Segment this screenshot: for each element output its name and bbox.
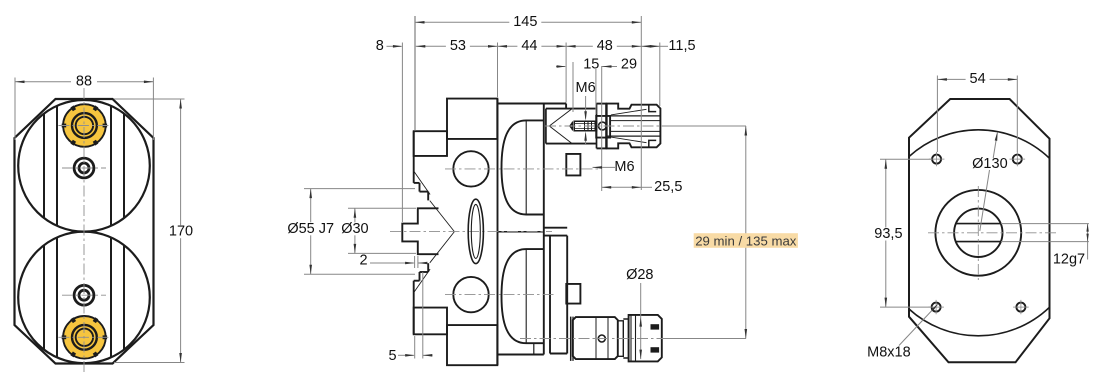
dimension 29	[602, 66, 617, 68]
dimension 53	[416, 45, 498, 47]
middle view: housing bottom edge	[498, 354, 544, 356]
middle view: lens-shaped coupling slot	[468, 199, 483, 263]
bottom spindle: step rings	[618, 321, 624, 357]
svg-text:29: 29	[621, 57, 637, 73]
right view: mounting holes	[932, 155, 941, 164]
bottom spindle: nut wrench slots (dark)	[651, 324, 660, 329]
svg-text:88: 88	[76, 74, 92, 90]
highlighted label 29 min / 135 max	[694, 233, 798, 248]
dimension 29 min / 135 max	[745, 126, 747, 339]
middle view: lower coupling block	[414, 308, 447, 335]
dimension 54	[936, 76, 938, 153]
svg-text:12g7: 12g7	[1053, 251, 1085, 267]
right view: spindle boss circle	[935, 190, 1021, 276]
svg-text:Ø130: Ø130	[972, 156, 1007, 172]
svg-text:170: 170	[169, 224, 193, 240]
bottom spindle: collet nut	[629, 315, 662, 362]
middle view: chamfer line lower	[414, 269, 430, 292]
left view: milled flat edges (vertical lines)	[43, 114, 45, 219]
top spindle: collet bore lines	[608, 115, 660, 117]
svg-text:M6: M6	[576, 80, 596, 96]
middle view: tapped tab upper (M6)	[566, 154, 580, 176]
right view: centerlines	[977, 186, 979, 280]
middle view: top mounting block	[447, 99, 497, 139]
svg-text:Ø55 J7: Ø55 J7	[287, 221, 334, 237]
left view: ER collet nut (top spindle, orange)	[62, 104, 107, 147]
svg-text:48: 48	[597, 38, 613, 54]
top spindle: ER collet nut body	[607, 104, 661, 149]
svg-text:11,5: 11,5	[668, 38, 695, 54]
dimension 145	[414, 16, 416, 131]
svg-text:29 min / 135 max: 29 min / 135 max	[695, 233, 797, 248]
middle view: clamp bore circle bottom	[453, 277, 488, 312]
svg-text:2: 2	[359, 252, 367, 268]
bottom spindle: main cylinder	[573, 317, 618, 359]
top spindle: centerline	[545, 125, 663, 127]
svg-text:53: 53	[450, 38, 466, 54]
middle view: clamp bore circle top	[453, 151, 488, 186]
svg-text:44: 44	[521, 38, 537, 54]
middle view: housing right face	[543, 104, 545, 355]
svg-text:15: 15	[583, 57, 599, 73]
top spindle: flange rings	[596, 104, 598, 149]
svg-text:93,5: 93,5	[874, 226, 902, 242]
middle view: upper coupling block	[414, 131, 447, 156]
dimension 11,5	[641, 45, 660, 47]
dimension 170 (left view height)	[114, 98, 185, 100]
middle view: left coupling face upper	[413, 131, 415, 183]
dimension 93,5	[880, 158, 932, 160]
bottom spindle: centerline	[520, 338, 664, 340]
middle view: bottom mounting block	[447, 325, 497, 365]
svg-text:Ø30: Ø30	[341, 221, 368, 237]
top spindle: nose cone V	[549, 109, 572, 126]
svg-text:145: 145	[513, 14, 537, 30]
svg-text:Ø28: Ø28	[626, 267, 653, 283]
middle view: coupling axis centerline	[390, 231, 552, 233]
svg-text:25,5: 25,5	[654, 179, 682, 195]
right view: plate outline (octagon)	[909, 99, 1050, 362]
top spindle: M6 threaded stud	[570, 123, 573, 129]
middle view: cartridge barrel bottom (D-shape)	[502, 249, 544, 343]
middle view: left coupling face lower	[413, 281, 415, 335]
dimension O28	[640, 283, 642, 359]
dimension O55 J7	[304, 188, 415, 190]
dimension O30	[348, 207, 416, 209]
dimension 15	[556, 66, 565, 68]
left view: ER collet nut (bottom spindle, orange)	[62, 316, 107, 359]
dimension 5	[414, 336, 416, 359]
middle view: housing top edge	[498, 103, 567, 105]
middle view: bore step lines	[533, 343, 535, 355]
top spindle: head block edges	[546, 108, 597, 110]
dimension 88 (left view width)	[14, 78, 16, 141]
left view: spindle housing bores (two large circles)	[18, 100, 150, 232]
middle view: cartridge barrel top (D-shape)	[502, 120, 544, 214]
top spindle: nut wrench notches	[649, 105, 656, 112]
label M6 (stud thread)	[585, 96, 587, 119]
top spindle: drive collar with cross pin	[596, 116, 610, 138]
middle view: drive tooth profile	[402, 208, 438, 254]
svg-text:M6: M6	[614, 159, 634, 175]
middle view: coupling cone V lines	[430, 201, 455, 232]
dimension 25,5	[601, 66, 603, 191]
dimension 12g7	[1001, 223, 1089, 225]
dimension 2	[414, 256, 416, 268]
label M6 (tab tapped hole)	[593, 166, 616, 168]
middle view: housing split line	[498, 231, 544, 233]
top spindle: collet taper lines	[611, 109, 647, 115]
label O130 with leader	[980, 170, 990, 231]
middle view: tapped tab lower	[566, 284, 580, 304]
right view: output shaft circle with flats	[954, 209, 1002, 257]
dimension 48	[566, 45, 641, 47]
svg-text:8: 8	[376, 38, 384, 54]
svg-text:M8x18: M8x18	[867, 345, 911, 361]
middle view: head block edges	[544, 227, 567, 229]
svg-text:54: 54	[970, 71, 986, 87]
svg-text:5: 5	[389, 348, 397, 364]
middle view: housing left face	[497, 99, 499, 366]
left view: clamping bolt hole (top)	[74, 158, 94, 178]
label M8x18 with leader	[899, 305, 938, 346]
dimension 44	[498, 45, 567, 47]
bottom spindle: mounting rings	[570, 317, 572, 361]
middle view: chamfer line upper	[414, 172, 430, 195]
left view: plate outline (octagon)	[15, 99, 154, 364]
left view: vertical centerline	[83, 88, 85, 374]
left view: clamping bolt hole (bottom)	[74, 285, 94, 305]
dimension 8	[387, 45, 402, 47]
